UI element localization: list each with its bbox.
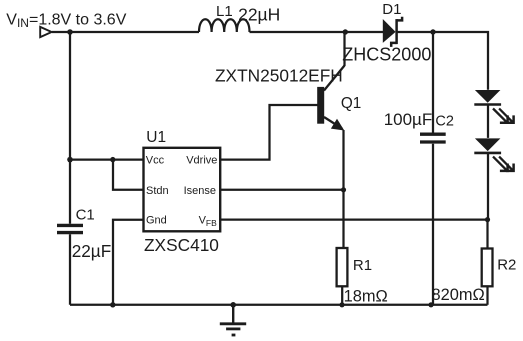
- node Q1 collector on top rail: [343, 29, 348, 34]
- wire R1 bottom to ground rail: [341, 287, 343, 305]
- node VFB / R2 top: [485, 217, 490, 222]
- svg-text:C2: C2: [435, 114, 454, 130]
- wire LED2 to VFB node: [487, 153, 489, 220]
- wire Stdn pin tied up to Vcc line: [113, 160, 144, 190]
- wire Gnd pin down to ground rail: [113, 220, 144, 305]
- wire top rail from input to inductor: [52, 31, 199, 33]
- svg-text:R1: R1: [353, 257, 372, 274]
- svg-text:Isense: Isense: [184, 185, 216, 197]
- svg-text:Gnd: Gnd: [146, 215, 167, 227]
- IC U1 box (ZXSC410): [144, 148, 221, 232]
- wire diode cathode to top-right corner: [398, 32, 489, 90]
- svg-text:Vcc: Vcc: [146, 155, 165, 167]
- wire C2 bottom to ground rail: [432, 144, 434, 305]
- resistor R2: [482, 249, 493, 287]
- svg-text:U1: U1: [146, 129, 166, 146]
- node ground symbol tap: [230, 302, 236, 308]
- ground symbol: [220, 305, 246, 335]
- wire Isense to R1 top node: [220, 189, 343, 191]
- capacitor C1 plates: [57, 225, 83, 232]
- wire Vcc pin to left rail: [70, 158, 144, 160]
- svg-text:C1: C1: [76, 206, 95, 223]
- node C2 top: [430, 29, 435, 34]
- input terminal VIN: [40, 27, 51, 37]
- wire inductor to Q1 collector node: [250, 31, 384, 33]
- svg-text:D1: D1: [382, 1, 401, 18]
- LED D3 (bottom LED): [474, 138, 513, 171]
- junction node dots: [67, 29, 490, 307]
- svg-text:Stdn: Stdn: [146, 185, 169, 197]
- resistor R1: [337, 248, 348, 286]
- node Gnd pin on ground rail: [110, 302, 115, 307]
- node R1 bottom: [339, 302, 344, 307]
- svg-text:820mΩ: 820mΩ: [432, 286, 485, 304]
- wire Vdrive to Q1 base: [220, 105, 318, 160]
- wire between LEDs: [487, 105, 489, 138]
- wire VFB to R2 top node: [220, 218, 487, 220]
- wire left rail top (Vin node down to C1): [69, 32, 71, 224]
- inductor L1: [199, 19, 250, 32]
- svg-text:22µH: 22µH: [238, 5, 280, 25]
- diode D1 (Schottky ZHCS2000): [383, 17, 402, 47]
- svg-text:ZHCS2000: ZHCS2000: [342, 45, 431, 65]
- node C2 bottom: [428, 302, 433, 307]
- svg-text:L1: L1: [216, 3, 233, 20]
- svg-text:ZXTN25012EFH: ZXTN25012EFH: [215, 65, 343, 85]
- wire Q1 emitter node to R1: [342, 190, 344, 248]
- svg-text:22µF: 22µF: [72, 241, 112, 261]
- wire VFB node to R2: [486, 220, 488, 249]
- svg-text:Q1: Q1: [341, 95, 361, 112]
- svg-text:100µF: 100µF: [384, 110, 433, 129]
- capacitor C2 plates: [420, 134, 446, 142]
- node Isense / R1 top: [341, 187, 346, 192]
- node Stdn/Vcc tie: [110, 157, 115, 162]
- LED D2 (top LED): [474, 90, 513, 123]
- node Vcc rail tap: [67, 157, 73, 163]
- wire R2 bottom to ground rail: [486, 287, 488, 305]
- svg-text:ZXSC410: ZXSC410: [144, 235, 219, 255]
- wire C2 top: [432, 32, 434, 133]
- wire left rail C1 to ground rail: [69, 234, 71, 304]
- svg-text:R2: R2: [497, 256, 516, 273]
- svg-text:Vdrive: Vdrive: [186, 155, 217, 167]
- svg-text:18mΩ: 18mΩ: [344, 288, 388, 306]
- node Vin top: [67, 29, 73, 35]
- transistor Q1 (ZXTN25012EFH NPN): [317, 32, 344, 190]
- wire bottom ground rail: [70, 304, 488, 306]
